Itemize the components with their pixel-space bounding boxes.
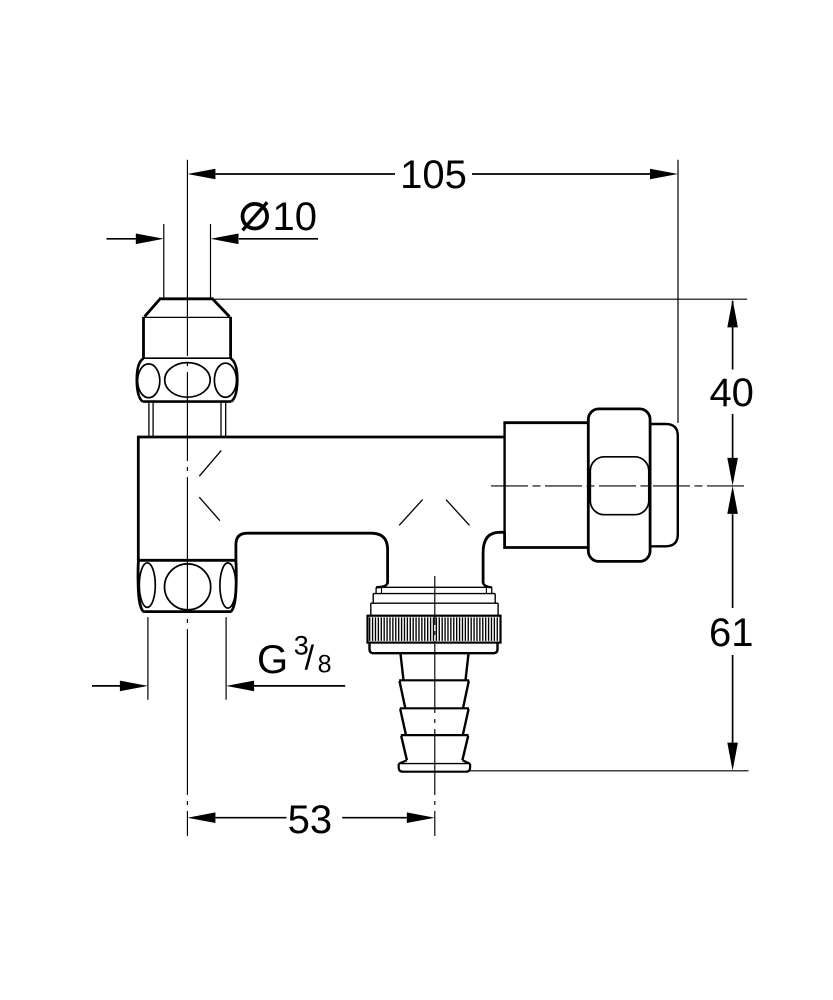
outlet neck top edge: [503, 421, 589, 424]
compression nut shoulder line: [145, 316, 231, 318]
hose barb 3: [401, 734, 469, 736]
outlet nut hex flat: [590, 457, 649, 515]
hose neck right side: [483, 582, 492, 587]
handle center ellipse: [165, 363, 211, 398]
hose neck left side: [376, 582, 388, 587]
hose barb 1: [399, 679, 469, 681]
compression nut taper (top trapezoid): [159, 297, 214, 300]
body/outlet joint line: [503, 423, 505, 532]
svg-text:/: /: [305, 639, 315, 677]
hose outlet centerline (vertical, x=434.8): [434, 576, 436, 836]
hose band C: [371, 602, 498, 604]
valve body left edge: [137, 436, 140, 561]
valve body bottom recess: [236, 533, 388, 583]
105 right extension line: [677, 160, 679, 423]
hose cone: [401, 654, 404, 681]
handle top line: [144, 357, 231, 359]
hose barb 2: [400, 707, 469, 709]
svg-text:8: 8: [318, 650, 332, 678]
inlet nut left ellipse: [139, 563, 155, 608]
61 bottom reference line: [470, 770, 748, 772]
hose band D: [370, 643, 498, 654]
40 top reference line: [214, 298, 748, 300]
handle left ellipse: [138, 364, 160, 398]
valve body step to outlet: [505, 532, 589, 548]
knurling: [369, 617, 499, 641]
knurled ring outline: [368, 616, 501, 643]
hose foot: [399, 760, 407, 764]
G3/8 extension line right: [225, 617, 227, 700]
handle right ellipse: [214, 363, 236, 397]
inlet nut center ball: [165, 564, 211, 610]
chamfer chevron at inlet bore: [199, 450, 221, 476]
hose band B: [373, 593, 495, 595]
svg-text:G: G: [257, 638, 288, 682]
valve body right of hose neck: [483, 532, 505, 583]
hose top band A: [376, 586, 492, 588]
dimension 61: [732, 514, 734, 608]
inlet pipe / Ø10 extension line left: [163, 224, 165, 299]
inlet centerline (vertical, x=187.4): [186, 160, 188, 836]
inlet nut right ellipse: [220, 563, 236, 608]
outlet union nut: [588, 409, 650, 562]
inlet union nut (bottom left): [138, 561, 144, 612]
valve body top edge: [138, 436, 505, 439]
compression nut body sides: [142, 317, 145, 358]
thread stub below handle: [149, 403, 226, 436]
dimension 105: [215, 173, 395, 175]
dimension 53: [215, 817, 286, 819]
dimension G3/8: [92, 685, 120, 687]
dimension Ø10: [107, 238, 137, 240]
G3/8 extension line left: [147, 617, 149, 700]
label Ø10: [243, 202, 268, 230]
dimension 40: [732, 301, 734, 370]
svg-text:40: 40: [709, 371, 754, 415]
chamfer chevron at hose bore: [399, 500, 422, 526]
outlet end cap: [650, 424, 678, 546]
handle knob outline: [137, 358, 144, 401]
svg-text:53: 53: [288, 798, 333, 842]
valve body bottom left edge: [137, 559, 236, 562]
svg-text:10: 10: [273, 195, 318, 239]
svg-text:105: 105: [400, 153, 467, 197]
side outlet centerline (horizontal, y=485.9): [491, 485, 749, 487]
svg-text:61: 61: [709, 611, 754, 655]
inlet pipe / Ø10 extension line right: [210, 224, 212, 299]
